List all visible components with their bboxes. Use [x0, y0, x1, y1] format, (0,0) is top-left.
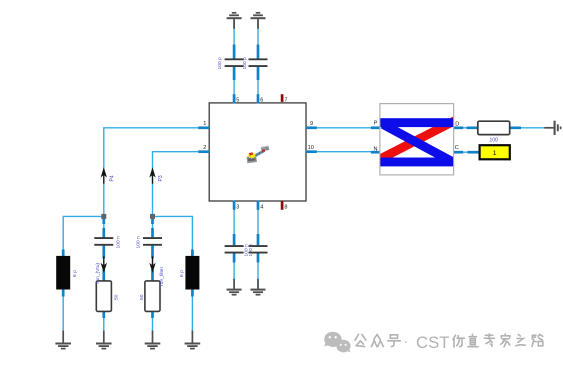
- R2 value label 50: [139, 294, 145, 300]
- svg-text:3: 3: [236, 205, 239, 211]
- source arrow T1: [101, 256, 107, 273]
- T2 label Tun_filter: [159, 266, 165, 287]
- capacitor C5: [225, 59, 244, 66]
- resistor R3: [478, 121, 510, 134]
- stub balun pin C: [453, 151, 463, 154]
- ground under R2: [145, 331, 161, 349]
- pin 6: [258, 94, 263, 103]
- capacitor C4: [249, 246, 268, 253]
- wire junction B down to C2: [152, 216, 154, 237]
- pin 10: [306, 145, 317, 152]
- pin 5: [234, 94, 239, 103]
- wire balun C to port 1: [463, 151, 479, 153]
- P4 label: [110, 175, 116, 181]
- ground top left: [227, 13, 242, 29]
- block U1 body: [209, 103, 306, 201]
- svg-text:100 n: 100 n: [116, 236, 122, 249]
- stub R3 terminals: [467, 126, 522, 129]
- U1 3D preview icon: [247, 145, 270, 163]
- R3 value label 100: [490, 138, 499, 144]
- capacitor C3: [225, 246, 244, 253]
- ground under B1: [55, 331, 71, 349]
- svg-text:4: 4: [260, 205, 263, 211]
- probe P3 arrow: [149, 167, 155, 184]
- wire pin3 to C3: [233, 201, 235, 245]
- wire junction B to black cap B2: [153, 216, 193, 256]
- svg-text:8: 8: [284, 205, 287, 211]
- svg-text:100 p: 100 p: [217, 57, 223, 70]
- pin 9: [306, 121, 317, 128]
- capacitor C1: [94, 238, 113, 245]
- stub T2 arrow to R2: [151, 270, 154, 319]
- svg-text:100: 100: [490, 138, 499, 144]
- pin 1: [198, 121, 209, 128]
- B2 value label 6p: [179, 270, 185, 277]
- C4 value label 100n: [248, 244, 254, 257]
- wire junction A to black cap B1: [63, 216, 104, 331]
- black capacitor B2: [185, 256, 199, 290]
- svg-text:·: ·: [404, 333, 409, 349]
- external port 1: [480, 145, 510, 159]
- stub B2 terminals: [191, 250, 194, 297]
- ground bottom center left: [227, 279, 242, 295]
- svg-text:2: 2: [203, 145, 206, 151]
- junction B node: [150, 214, 155, 219]
- ground bottom center right: [251, 279, 266, 295]
- wire junction A down to C1: [103, 216, 105, 237]
- svg-text:100 n: 100 n: [136, 236, 142, 249]
- stub balun pin P: [371, 126, 381, 129]
- pin 8: [282, 201, 287, 211]
- svg-text:100 p: 100 p: [242, 57, 248, 70]
- T1 label Tun_(Vtune): [95, 263, 101, 285]
- pin 3: [234, 201, 239, 211]
- C2 value label 100n: [136, 236, 142, 249]
- stub C4 terminals: [257, 234, 260, 263]
- wire C2 to R2: [152, 246, 154, 281]
- svg-text:Tun_filter: Tun_filter: [159, 266, 165, 287]
- svg-text:Tun_(Vtu): Tun_(Vtu): [95, 263, 101, 285]
- svg-text:CST: CST: [416, 333, 450, 352]
- stub balun pin N: [371, 151, 381, 154]
- stub C3 terminals: [233, 234, 236, 263]
- wire R3 to right ground: [510, 127, 545, 129]
- wire C6 to top ground: [257, 20, 259, 59]
- black capacitor B1: [56, 256, 70, 290]
- svg-text:6: 6: [260, 97, 263, 103]
- balun blue diagonal: [383, 124, 451, 161]
- wire pin9 to balun P: [317, 127, 371, 129]
- R1 value label 50: [114, 294, 120, 300]
- balun blue top bar: [380, 118, 453, 127]
- stub C1 terminals: [102, 228, 105, 259]
- watermark text: [355, 334, 543, 347]
- stub C2 terminals: [151, 228, 154, 259]
- stub balun pin D: [453, 126, 463, 129]
- wire pin5 to C5: [233, 67, 235, 103]
- stub C5 terminals: [233, 45, 236, 81]
- capacitor C2: [143, 238, 162, 245]
- wire C5 to top ground: [233, 20, 235, 59]
- svg-text:100 n: 100 n: [248, 244, 254, 257]
- svg-text:6 p: 6 p: [72, 270, 78, 277]
- stub T1 arrow to R1: [102, 270, 105, 319]
- watermark wechat icon: [324, 332, 350, 353]
- wire pin4 to C4: [257, 201, 259, 245]
- svg-text:C: C: [455, 145, 459, 151]
- svg-text:P4: P4: [110, 175, 116, 181]
- stub junction A below: [102, 216, 105, 224]
- svg-text:1: 1: [493, 150, 497, 157]
- svg-text:10: 10: [308, 145, 314, 151]
- wire R1 to ground: [103, 311, 105, 332]
- svg-text:9: 9: [310, 121, 313, 127]
- pin 4: [258, 201, 263, 211]
- stub port 1 terminal: [468, 151, 480, 154]
- wire R2 to ground: [152, 311, 154, 332]
- wire C4 to ground: [257, 254, 259, 289]
- stub B1 terminals: [62, 250, 65, 297]
- C3 value label 100n: [243, 244, 249, 257]
- source arrow T2: [149, 256, 155, 273]
- wire C3 to ground: [233, 254, 235, 289]
- watermark CST text: [404, 333, 450, 352]
- wire B2 to ground: [191, 289, 193, 331]
- wire C1 to R1: [103, 246, 105, 281]
- wire pin10 to balun N: [317, 151, 371, 153]
- stub junction B below: [151, 216, 154, 224]
- wire net1 pin1 to junction A: [104, 128, 199, 217]
- svg-text:P3: P3: [158, 175, 164, 181]
- capacitor C6: [249, 59, 268, 66]
- svg-text:50: 50: [139, 294, 145, 300]
- balun red diagonal: [377, 120, 457, 161]
- C1 value label 100n: [116, 236, 122, 249]
- C5 value label 100p: [217, 57, 223, 70]
- resistor R1: [96, 281, 111, 312]
- resistor R2: [145, 281, 160, 312]
- balun U2 box: [380, 104, 454, 175]
- svg-text:D: D: [455, 121, 459, 127]
- svg-text:1: 1: [203, 121, 206, 127]
- P3 label: [158, 175, 164, 181]
- wire pin6 to C6: [257, 67, 259, 103]
- ground under R1: [96, 331, 112, 349]
- C6 value label 100p: [242, 57, 248, 70]
- ground right sideways: [544, 121, 560, 135]
- balun blue bottom bar: [380, 158, 453, 167]
- svg-text:6 p: 6 p: [179, 270, 185, 277]
- pin 2: [198, 145, 209, 152]
- probe P4 arrow: [101, 167, 107, 184]
- balun pin label N: [373, 147, 377, 153]
- junction A node: [101, 214, 106, 219]
- svg-text:N: N: [373, 147, 377, 153]
- stub C6 terminals: [257, 45, 260, 81]
- balun pin label P: [374, 120, 378, 126]
- balun pin label C: [455, 145, 459, 151]
- svg-text:50: 50: [114, 294, 120, 300]
- B1 value label 6p: [72, 270, 78, 277]
- wire balun D to R3: [463, 127, 478, 129]
- ground top right: [251, 13, 266, 29]
- ground under B2: [185, 331, 201, 349]
- svg-text:P: P: [374, 120, 378, 126]
- svg-text:5: 5: [236, 97, 239, 103]
- balun pin label D: [455, 121, 459, 127]
- pin 7: [282, 94, 287, 103]
- wire net2 pin2 to junction B: [153, 152, 199, 217]
- svg-text:7: 7: [284, 97, 287, 103]
